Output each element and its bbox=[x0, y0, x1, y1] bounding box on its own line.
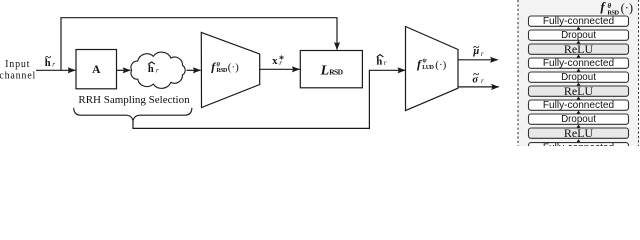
wire: A to cloud bbox=[117, 69, 131, 71]
node label h-hat_r (decoder input) bbox=[376, 55, 386, 68]
svg-text:r: r bbox=[279, 59, 282, 67]
svg-text:Fully-connected: Fully-connected bbox=[543, 58, 614, 69]
svg-text:r: r bbox=[384, 59, 387, 67]
svg-text:x: x bbox=[272, 56, 278, 67]
svg-text:ψ: ψ bbox=[422, 57, 427, 64]
brace bbox=[74, 108, 192, 121]
svg-text:RRH Sampling Selection: RRH Sampling Selection bbox=[78, 94, 190, 106]
up arrow 5 bbox=[577, 83, 581, 87]
layer box: Fully-connected 2 bbox=[529, 58, 629, 69]
wire: bottom feedback from selection to decoder bbox=[133, 70, 405, 128]
svg-text:h: h bbox=[148, 64, 154, 75]
svg-text:(·): (·) bbox=[435, 59, 446, 71]
layer box: Fully-connected 3 bbox=[529, 100, 629, 111]
svg-text:r: r bbox=[481, 77, 484, 85]
svg-text:A: A bbox=[92, 64, 101, 76]
svg-text:(·): (·) bbox=[228, 62, 239, 74]
svg-text:h: h bbox=[376, 57, 382, 68]
label mu-tilde_r bbox=[472, 41, 484, 58]
svg-text:ReLU: ReLU bbox=[564, 42, 594, 56]
layer box: Dropout 1 bbox=[529, 30, 629, 41]
node label h-hat_r (in cloud) bbox=[148, 62, 159, 75]
block A (RRH selection matrix) bbox=[76, 50, 117, 89]
up arrow 2 bbox=[577, 41, 581, 45]
svg-text:ReLU: ReLU bbox=[564, 126, 594, 140]
svg-text:ReLU: ReLU bbox=[564, 84, 594, 98]
svg-text:LUD: LUD bbox=[422, 65, 434, 71]
svg-text:Dropout: Dropout bbox=[561, 114, 596, 125]
wire: encoder to loss, label x*_r bbox=[260, 68, 300, 70]
output arrow sigma bbox=[458, 86, 499, 88]
svg-text:Dropout: Dropout bbox=[561, 30, 596, 41]
svg-text:r: r bbox=[481, 50, 484, 58]
up arrow 3 bbox=[577, 55, 581, 59]
svg-text:Fully-connected: Fully-connected bbox=[543, 16, 614, 27]
input wire with arrow into A bbox=[36, 69, 75, 71]
up arrow 8 bbox=[577, 125, 581, 129]
up arrow 7 bbox=[577, 111, 581, 115]
layer box: Fully-connected 1 bbox=[529, 16, 629, 27]
svg-text:Fully-connected: Fully-connected bbox=[543, 100, 614, 111]
svg-text:~: ~ bbox=[45, 52, 51, 64]
svg-text:r: r bbox=[156, 66, 159, 74]
up arrow 9 bbox=[577, 139, 581, 143]
layer box: Dropout 3 bbox=[529, 114, 629, 125]
loss box L_RSD bbox=[300, 51, 362, 88]
svg-text:Fully-connected: Fully-connected bbox=[543, 143, 614, 147]
up arrow 1 bbox=[577, 27, 581, 31]
decoder trapezoid f^psi_LUD bbox=[406, 27, 459, 111]
up arrow 6 bbox=[577, 97, 581, 101]
panel: layer-stack detail box (dashed) bbox=[518, 0, 639, 154]
output arrow mu bbox=[458, 59, 498, 61]
svg-text:RSD: RSD bbox=[216, 68, 228, 74]
layer box: ReLU 1 bbox=[529, 42, 629, 56]
cloud node bbox=[131, 52, 185, 88]
svg-text:L: L bbox=[320, 63, 330, 78]
svg-text:Dropout: Dropout bbox=[561, 72, 596, 83]
layer box: ReLU 3 bbox=[529, 126, 629, 140]
panel title f^theta_RSD(.) bbox=[600, 0, 633, 17]
label sigma-tilde_r bbox=[472, 69, 484, 86]
wire: top feedback (input tap up and across) bbox=[61, 18, 337, 70]
wire: cloud to encoder bbox=[187, 69, 201, 71]
layer box: Dropout 2 bbox=[529, 72, 629, 83]
svg-text:RSD: RSD bbox=[329, 68, 343, 77]
encoder trapezoid f^theta_RSD bbox=[201, 32, 259, 107]
up arrow 4 bbox=[577, 69, 581, 73]
svg-text:~: ~ bbox=[473, 69, 479, 81]
svg-text:channel: channel bbox=[0, 70, 36, 81]
input label: Input channel bbox=[0, 59, 36, 81]
svg-text:(·): (·) bbox=[621, 1, 634, 15]
node label h-tilde_r bbox=[45, 52, 56, 70]
svg-text:r: r bbox=[52, 60, 55, 68]
svg-text:~: ~ bbox=[473, 41, 479, 53]
layer box: ReLU 2 bbox=[529, 84, 629, 98]
svg-text:Input: Input bbox=[5, 59, 30, 70]
layer box: Fully-connected 4 (cut off) bbox=[529, 143, 629, 154]
